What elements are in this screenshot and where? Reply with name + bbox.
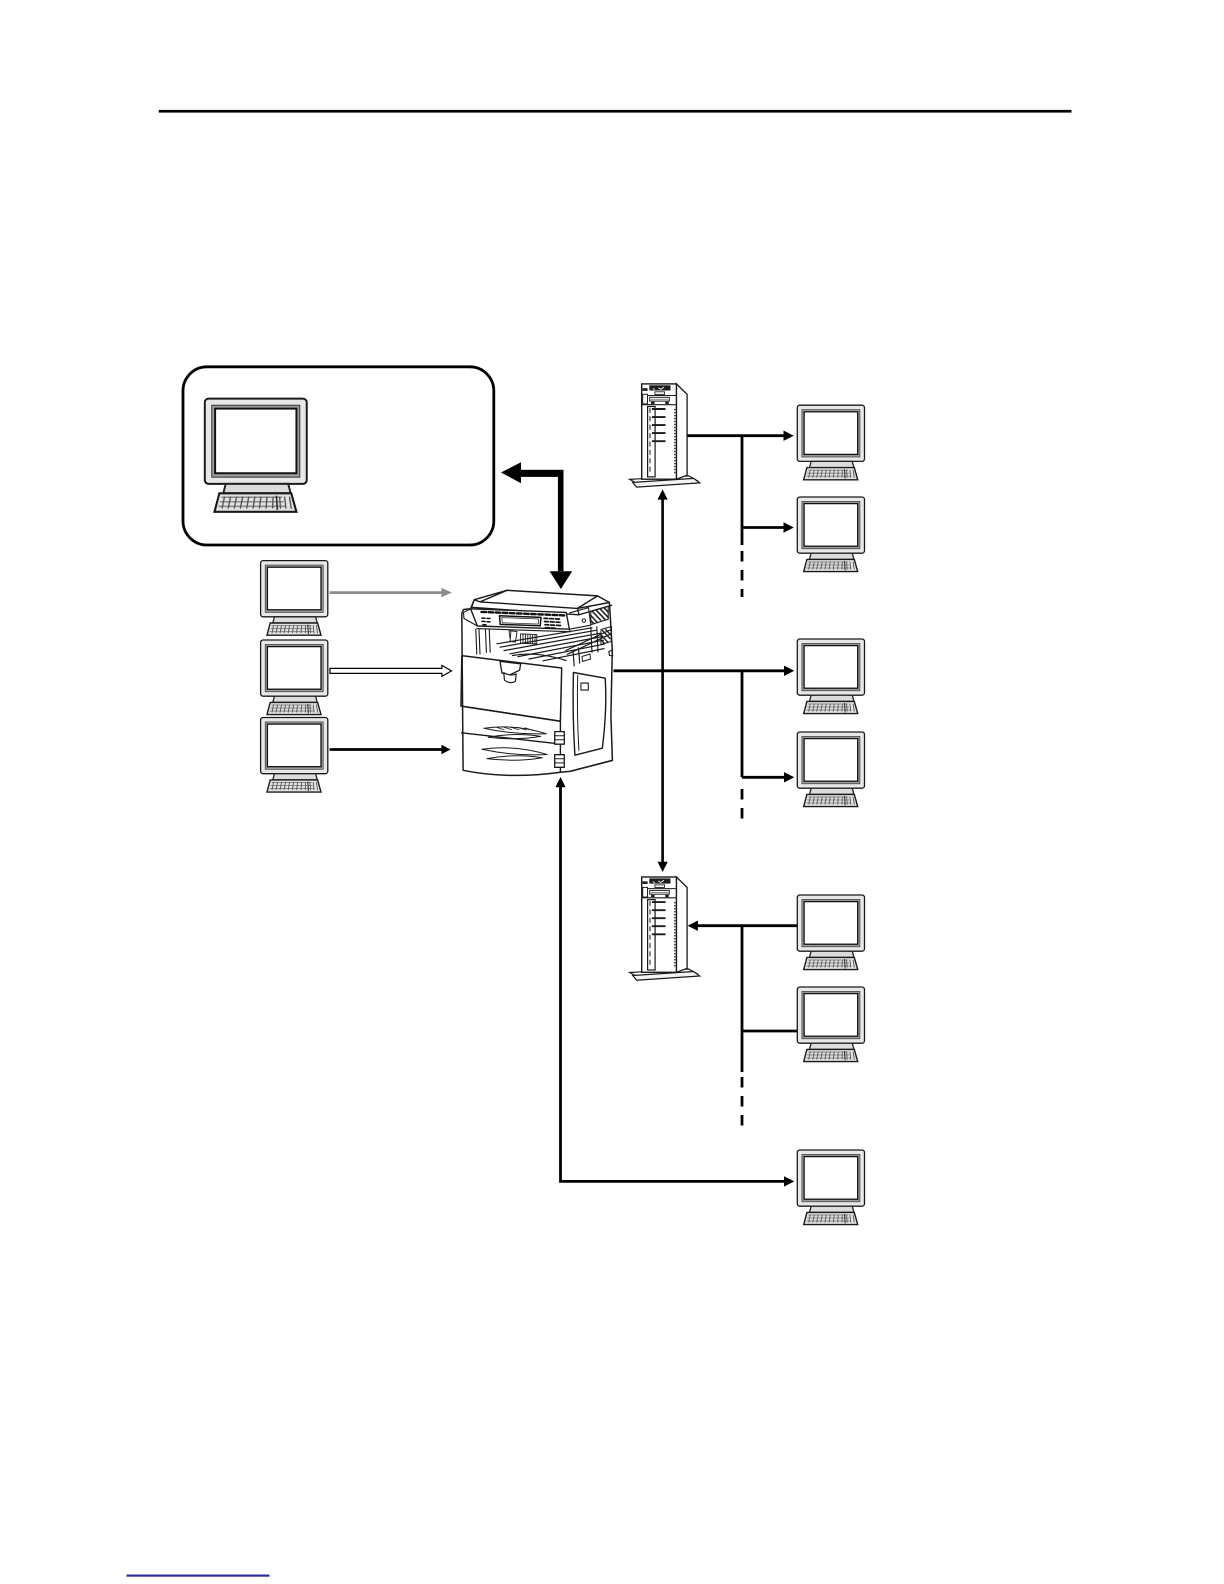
computer PC-M1 [797,405,864,480]
cavity right pillars [591,627,598,653]
computer PC-M2 [797,497,864,572]
top horizontal rule [159,110,1072,113]
dashed continuation below M6 branch [741,1077,744,1134]
vertical double arrow between servers [658,489,668,872]
side door handle [581,683,588,690]
handle tab [500,661,521,675]
panel left LEDs [482,618,490,625]
drawer 2 swoosh [482,748,547,755]
small lever [509,631,517,642]
dashed continuation below M2 branch [741,551,744,597]
printer MFP [461,590,613,775]
bottom blue link underline [127,1575,270,1577]
front panel [461,656,562,722]
line printer to PC-M3 with arrow [614,666,795,676]
computer PC0 (inside rounded box) [205,399,307,512]
computer PC-L3 (left column bottom) [261,718,328,793]
drawer 1 swoosh [484,727,547,734]
server S2 (bottom) [630,877,700,980]
long elbow wire printer to PC-M7 [555,777,794,1187]
platen lid top [474,590,609,608]
branch wire down to PC-M2 [741,436,744,545]
arrow to PC-M2 [742,522,794,532]
platen band [472,600,612,615]
printer body silhouette [462,590,613,775]
black arrow PC-L3 to printer [330,745,451,754]
inner grill [521,634,537,644]
side bottom edge [571,760,613,771]
panel key row [482,612,565,616]
cavity left pillars [476,629,490,654]
computer PC-M4 [797,732,864,807]
rounded rectangle group box [183,367,494,545]
side deck slot lines [566,630,612,666]
right small panel with screw [569,608,590,630]
plain wire to PC-M6 [742,1030,797,1033]
control panel slab [471,609,570,629]
computer PC-L2 (left column middle) [261,640,328,715]
side door [573,673,606,756]
vent hatch top right [591,606,608,624]
vent hatch right lower [601,627,612,645]
upper right small latch [582,654,591,662]
computer PC-L1 (left column top) [261,561,328,636]
computer PC-M6 [797,987,864,1062]
drawer 2 latch [555,755,565,768]
arrow to PC-M4 [742,772,794,782]
machine steps right edge [609,650,613,656]
branch wire down to PC-M6 [741,926,744,1072]
line PC-M5 to server S2 with left arrow [688,921,798,931]
drawer divider lines [461,706,560,744]
branch wire down to PC-M4 [741,671,744,778]
thick elbow arrow (printer to box) [501,462,564,571]
hollow arrow PC-L2 to printer [330,665,452,676]
computer PC-M7 [797,1150,864,1225]
computer PC-M5 [797,895,864,970]
tray front lip [513,654,567,660]
drawer 1 latch [555,732,565,745]
computer PC-M3 [797,639,864,714]
output tray slanted lines [497,628,604,661]
line S1 to PC-M1 with arrow [688,431,794,441]
dashed continuation below M4 branch [741,789,744,827]
panel display [500,616,542,626]
panel keypad [544,618,560,628]
gray arrow PC-L1 to printer [330,588,452,597]
server S1 (top) [630,384,700,487]
